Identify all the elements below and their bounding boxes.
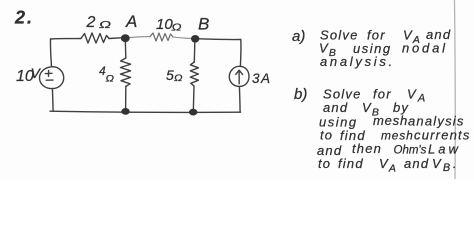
svg-text:nodal: nodal xyxy=(402,41,448,56)
svg-text:and: and xyxy=(323,100,348,115)
svg-text:analysis: analysis xyxy=(408,114,465,129)
svg-text:to: to xyxy=(320,128,333,143)
svg-text:Ohm's: Ohm's xyxy=(394,145,427,157)
svg-text:and: and xyxy=(404,156,429,171)
svg-text:for: for xyxy=(373,87,392,102)
svg-text:Law: Law xyxy=(428,142,461,157)
svg-text:VB.: VB. xyxy=(432,156,458,174)
svg-text:2: 2 xyxy=(86,14,96,31)
svg-text:mesh: mesh xyxy=(381,129,414,143)
svg-text:to: to xyxy=(318,156,331,171)
svg-text:VA: VA xyxy=(407,87,426,105)
svg-text:mesh: mesh xyxy=(373,113,408,128)
svg-text:3A: 3A xyxy=(252,71,272,86)
svg-text:a): a) xyxy=(292,28,305,45)
svg-text:find: find xyxy=(338,156,364,171)
svg-text:analysis.: analysis. xyxy=(320,54,395,69)
svg-text:B: B xyxy=(198,15,209,34)
svg-text:then: then xyxy=(352,141,382,156)
svg-text:Ω: Ω xyxy=(172,23,183,34)
svg-text:b): b) xyxy=(294,86,307,103)
svg-text:2.: 2. xyxy=(14,8,34,28)
svg-text:Ω: Ω xyxy=(99,20,112,31)
svg-text:currents: currents xyxy=(414,128,471,143)
svg-text:Ω: Ω xyxy=(106,74,115,84)
svg-text:5: 5 xyxy=(166,67,174,83)
svg-text:A: A xyxy=(125,12,137,31)
svg-text:Ω: Ω xyxy=(174,73,183,83)
svg-text:VA: VA xyxy=(379,156,397,175)
